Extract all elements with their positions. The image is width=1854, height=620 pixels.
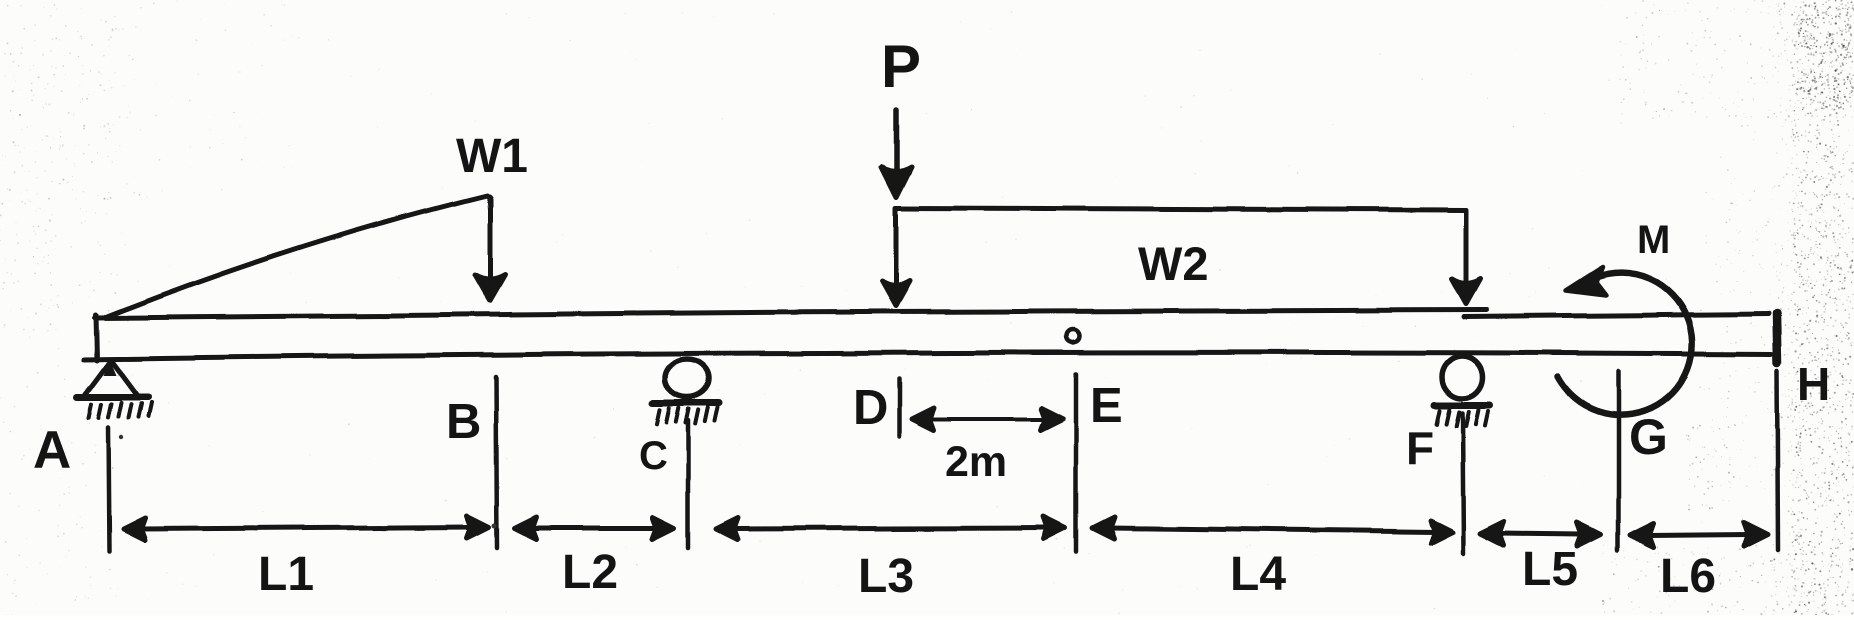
- svg-text:L2: L2: [562, 546, 618, 599]
- svg-text:W2: W2: [1138, 237, 1209, 290]
- svg-text:L3: L3: [858, 550, 914, 603]
- svg-text:L6: L6: [1660, 550, 1716, 603]
- svg-text:A: A: [33, 421, 71, 480]
- svg-text:E: E: [1090, 379, 1123, 433]
- svg-text:M: M: [1637, 218, 1670, 262]
- svg-text:P: P: [881, 33, 921, 100]
- svg-text:B: B: [446, 395, 481, 449]
- svg-text:D: D: [853, 381, 888, 435]
- svg-text:G: G: [1629, 409, 1668, 465]
- svg-text:L1: L1: [258, 548, 314, 601]
- svg-text:L4: L4: [1230, 548, 1286, 601]
- svg-text:H: H: [1797, 358, 1830, 410]
- svg-text:L5: L5: [1522, 543, 1578, 596]
- svg-text:2m: 2m: [945, 438, 1007, 486]
- svg-text:W1: W1: [456, 130, 528, 183]
- svg-text:C: C: [639, 434, 668, 478]
- svg-text:F: F: [1406, 422, 1434, 474]
